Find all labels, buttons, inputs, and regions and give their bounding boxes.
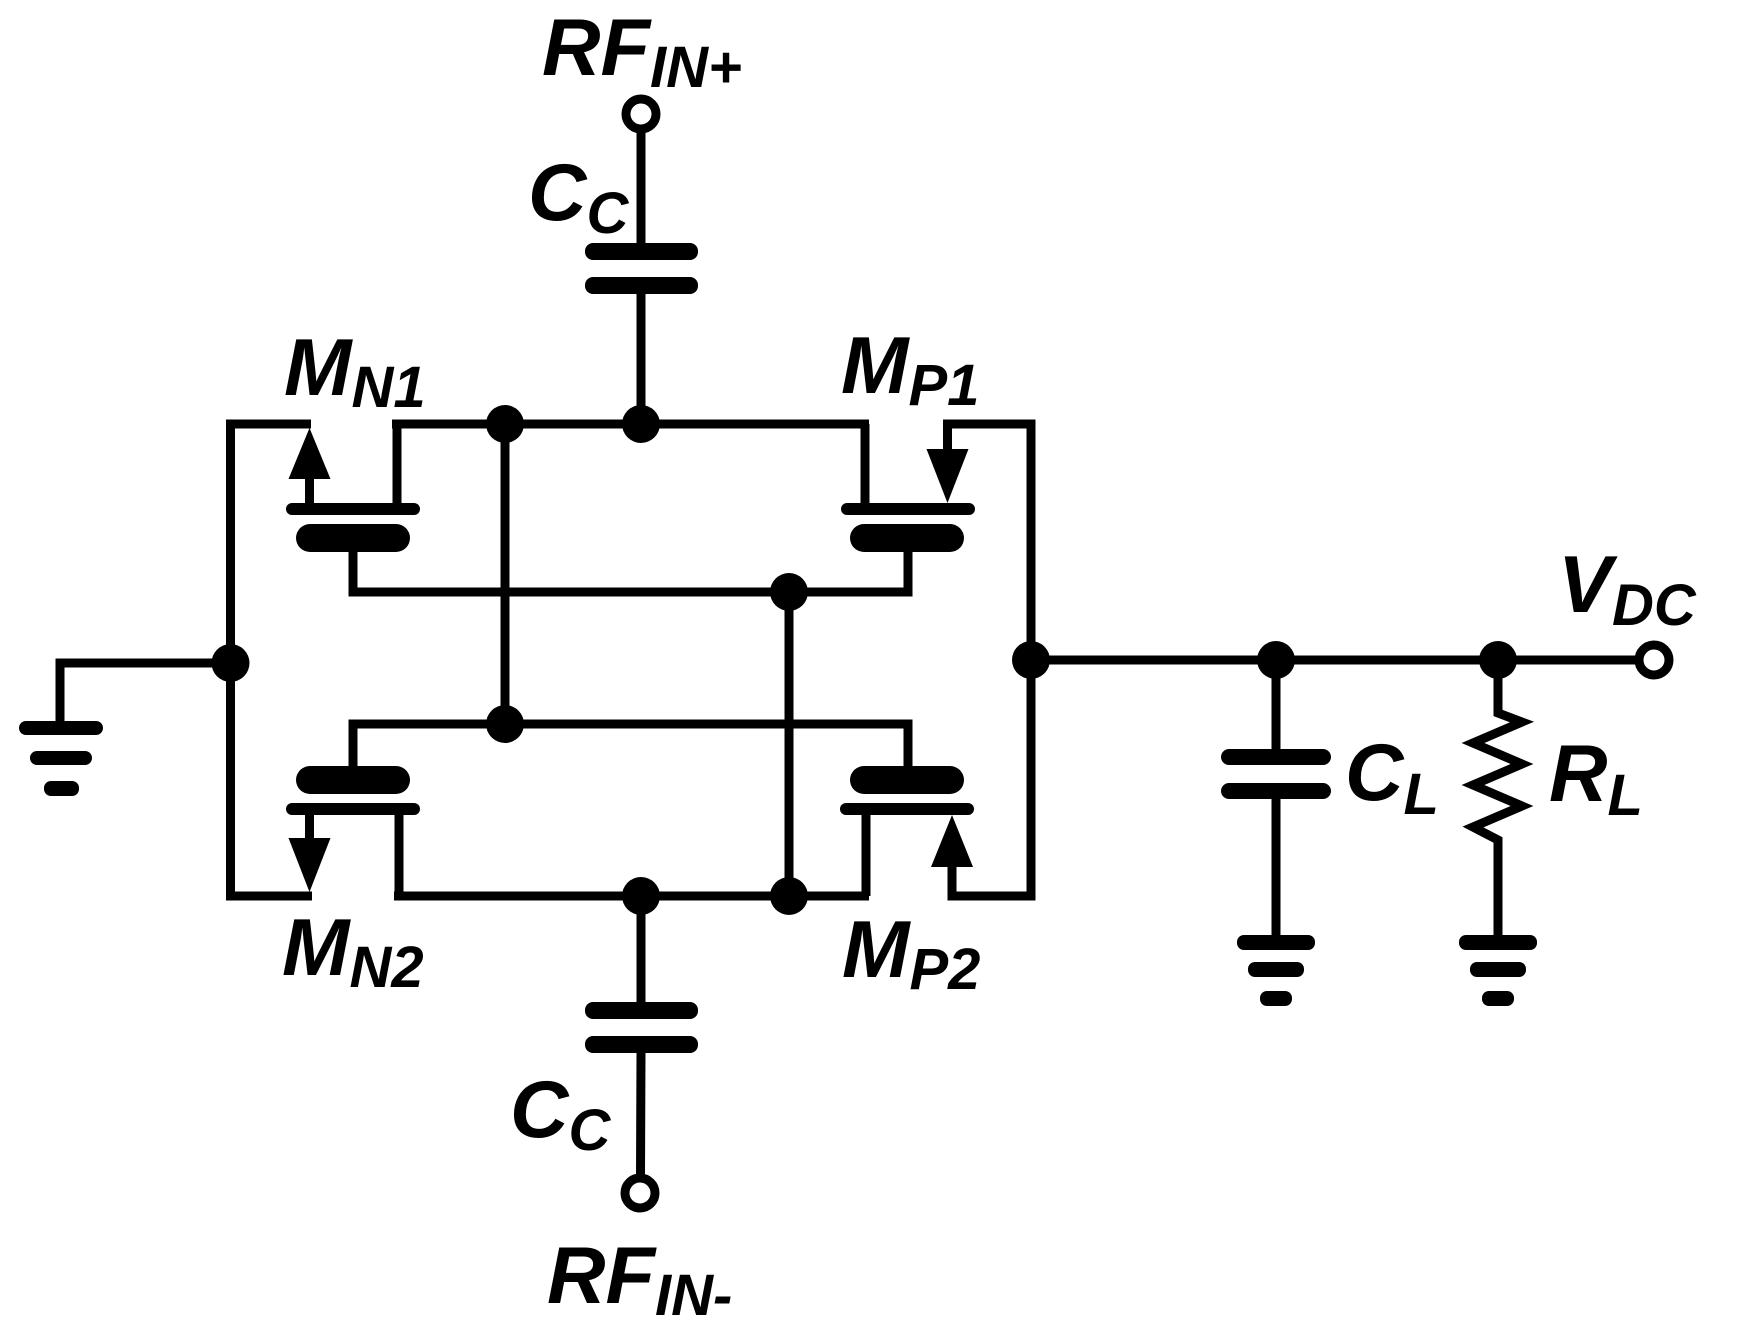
wire ground branch [60, 663, 231, 721]
svg-text:CC: CC [528, 148, 630, 246]
wire bottom rail left segment [226, 892, 312, 901]
capacitor CL [1221, 749, 1331, 799]
wire bottom rail to CC bottom [637, 896, 646, 1003]
wire CL upper [1272, 660, 1281, 750]
wire CC bottom to RF_IN- [636, 1053, 646, 1176]
node cross-couple tap on top rail [486, 405, 524, 443]
svg-text:MP1: MP1 [841, 321, 979, 418]
wire cross-couple top gates to bottom rail [785, 592, 794, 896]
wire CC top to top rail [637, 294, 646, 424]
svg-text:RL: RL [1549, 729, 1643, 828]
resistor RL [1473, 658, 1522, 937]
capacitor CC top [585, 243, 698, 294]
node CC bottom on RF- rail [622, 877, 660, 915]
node RL tap [1479, 641, 1517, 679]
terminal RF_IN- [625, 1178, 655, 1208]
wire output line [1031, 656, 1636, 665]
svg-text:MN1: MN1 [284, 323, 426, 420]
node cross-couple on bottom rail [770, 877, 808, 915]
node CC top on RF+ rail [622, 405, 660, 443]
wire right rail [1027, 420, 1036, 901]
wire top rail right segment [943, 420, 1036, 429]
wire gate line bottom transistors [349, 720, 913, 729]
wire CL lower [1272, 799, 1281, 937]
node output on right rail [1012, 641, 1050, 679]
wire bottom rail right segment [948, 892, 1036, 901]
terminal VDC [1639, 645, 1669, 675]
svg-text:RFIN+: RFIN+ [542, 3, 742, 100]
transistor MN1 [286, 424, 420, 597]
wire gate line top transistors [349, 588, 913, 597]
node left rail ground junction [212, 644, 250, 682]
wire top rail mid segment [392, 420, 869, 429]
transistor MP2 [840, 720, 974, 897]
ground left [19, 721, 103, 796]
node gate line to RF+ tap [486, 705, 524, 743]
wire RF_IN+ to CC top [637, 131, 646, 245]
wire top rail left segment [226, 420, 311, 429]
wire left rail [226, 420, 235, 901]
transistor MN2 [286, 720, 420, 897]
terminal RF_IN+ [626, 99, 656, 129]
svg-text:VDC: VDC [1558, 540, 1697, 638]
wire cross-couple top-rail to bottom gates [501, 424, 510, 724]
node gate line to RF- tap [770, 573, 808, 611]
svg-text:CL: CL [1345, 728, 1439, 827]
svg-text:CC: CC [510, 1065, 612, 1163]
svg-text:MN2: MN2 [282, 903, 424, 1000]
wire bottom rail mid segment [394, 892, 869, 901]
ground RL [1459, 935, 1537, 1006]
capacitor CC bottom [585, 1002, 698, 1053]
svg-text:RFIN-: RFIN- [547, 1231, 732, 1323]
node CL tap [1257, 641, 1295, 679]
ground CL [1237, 935, 1315, 1006]
transistor MP1 [841, 424, 975, 597]
svg-text:MP2: MP2 [842, 905, 980, 1002]
